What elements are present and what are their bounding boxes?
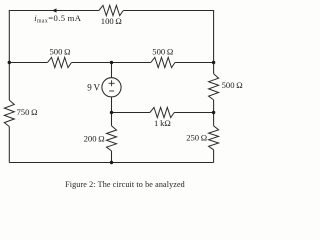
svg-text:500 Ω: 500 Ω: [152, 47, 173, 57]
wire centre branch above source: [111, 63, 113, 78]
V1 minus sign: [109, 90, 114, 92]
svg-text:500 Ω: 500 Ω: [50, 47, 71, 57]
wire top rail right of 100-ohm: [123, 11, 213, 74]
resistor 500 ohm (middle right): [151, 57, 175, 67]
resistor 500 ohm (middle left): [48, 57, 72, 67]
resistor 100 ohm (top): [99, 5, 123, 15]
resistor 200 ohm (centre branch): [107, 126, 117, 151]
node centre-top: [110, 61, 113, 64]
svg-text:250 Ω: 250 Ω: [186, 133, 207, 143]
wire left rail lower: [8, 127, 10, 163]
node centre-bottom: [110, 161, 113, 164]
resistor 500 ohm (right rail): [209, 74, 219, 100]
wire 1k rail left: [112, 112, 150, 114]
svg-text:200 Ω: 200 Ω: [84, 133, 105, 143]
wire centre branch below 200-ohm: [111, 151, 113, 163]
wire bottom rail: [9, 162, 213, 164]
svg-text:1 kΩ: 1 kΩ: [154, 118, 171, 128]
node right-middle: [212, 61, 215, 64]
resistor 1 kohm: [150, 107, 174, 117]
wire 1k rail right: [174, 112, 213, 114]
svg-text:500 Ω: 500 Ω: [222, 80, 243, 90]
node centre-1k: [110, 111, 113, 114]
resistor 750 ohm (left rail): [4, 100, 14, 126]
wire middle rail centre: [72, 62, 151, 64]
node right-1k: [212, 111, 215, 114]
wire middle rail left: [9, 62, 47, 64]
wire right rail below 250-ohm: [213, 150, 215, 163]
V1 plus sign: [109, 80, 115, 86]
svg-text:750 Ω: 750 Ω: [17, 107, 38, 117]
wire centre branch below source: [111, 97, 113, 126]
wire top rail: [9, 11, 99, 101]
svg-text:100 Ω: 100 Ω: [101, 16, 122, 26]
svg-text:9 V: 9 V: [87, 82, 100, 92]
current arrow i_max: [52, 8, 57, 12]
wire middle rail right: [175, 62, 214, 64]
node left-middle: [8, 61, 11, 64]
voltage source V1 9V: [102, 78, 121, 97]
resistor 250 ohm (right rail): [209, 126, 219, 150]
svg-text:Figure 2: The circuit to be an: Figure 2: The circuit to be analyzed: [65, 180, 185, 189]
wire right rail between 500 and 250: [213, 100, 215, 126]
